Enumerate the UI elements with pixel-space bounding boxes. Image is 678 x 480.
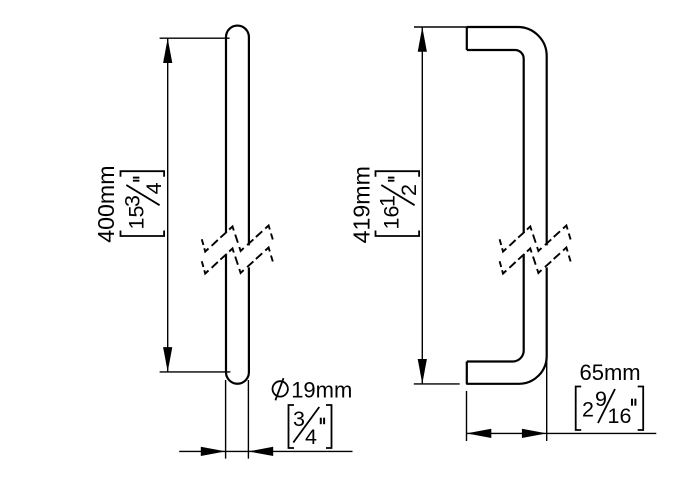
- fraction slash: [381, 185, 414, 205]
- inch mark tick 1: [320, 418, 322, 425]
- handle H2 side view: top leg inner edge and inner bend (above break): [467, 50, 524, 233]
- break mark H1: lower zigzag dashed line: [202, 248, 273, 274]
- break mark H1: upper zigzag dashed line: [202, 226, 273, 252]
- diameter symbol circle: [273, 381, 288, 396]
- label [15 3/4 inch] (rotated bracket group): [120, 171, 166, 236]
- dimension 419mm: vertical dimension line: [421, 27, 423, 384]
- dimension 419mm: top extension line: [414, 26, 467, 28]
- fraction slash: [126, 185, 159, 205]
- svg-text:1: 1: [375, 195, 399, 207]
- inch mark tick 2: [133, 177, 140, 179]
- handle H2 side view: grip inner edge and inner bend into bottom leg (below break): [467, 255, 524, 362]
- left square bracket: [376, 231, 420, 237]
- svg-text:65mm: 65mm: [580, 360, 641, 385]
- svg-text:4: 4: [142, 182, 166, 194]
- dimension 419mm: arrowhead up: [418, 27, 427, 52]
- break mark H2: lower zigzag dashed line: [500, 248, 571, 274]
- right square bracket: [638, 387, 644, 431]
- dimension d19mm: arrowhead pointing right: [201, 447, 226, 456]
- dimension 419mm: arrowhead down: [418, 359, 427, 384]
- svg-text:2: 2: [582, 398, 594, 422]
- left square bracket: [121, 231, 165, 237]
- dimension 400mm: bottom extension line: [160, 371, 231, 373]
- svg-text:4: 4: [305, 425, 317, 449]
- handle H2 side view: grip outer edge and outer bend into bottom leg (below break): [466, 267, 547, 383]
- svg-text:16: 16: [379, 206, 403, 230]
- inch mark tick 1: [388, 180, 395, 182]
- fraction slash: [598, 389, 615, 423]
- svg-text:15: 15: [124, 206, 148, 230]
- dimension d19mm: horizontal dimension line: [179, 450, 352, 452]
- label [16 1/2 inch] (rotated bracket group): [375, 171, 421, 236]
- dimension 400mm: top extension line: [160, 37, 230, 39]
- dimension 400mm: arrowhead down: [163, 347, 172, 372]
- svg-text:400mm: 400mm: [93, 165, 119, 242]
- inch mark tick 2: [634, 399, 636, 406]
- label [2 9/16 inch] (bracket group): [576, 387, 644, 431]
- handle H2 side view: top leg outer edge and outer bend into grip (above break): [467, 27, 547, 245]
- dimension d19mm: left extension line: [225, 380, 227, 459]
- svg-text:19mm: 19mm: [291, 378, 352, 403]
- inch mark tick 1: [631, 399, 633, 406]
- fraction slash: [293, 407, 319, 443]
- handle H2 side view: bottom end cap: [466, 362, 468, 384]
- inch mark tick 2: [323, 418, 325, 425]
- dimension d19mm: arrowhead pointing left: [248, 447, 273, 456]
- right square bracket: [326, 405, 332, 448]
- break mark H2: upper zigzag dashed line: [500, 226, 571, 252]
- dimension 400mm: arrowhead up: [163, 38, 172, 63]
- left square bracket: [576, 387, 582, 431]
- inch mark tick 2: [388, 177, 395, 179]
- svg-text:3: 3: [120, 195, 144, 207]
- dimension 400mm: vertical dimension line: [167, 38, 169, 372]
- dimension 419mm: bottom extension line: [414, 383, 460, 385]
- left square bracket: [289, 405, 295, 448]
- dimension 65mm: horizontal dimension line: [467, 432, 657, 434]
- inch mark tick 1: [133, 180, 140, 182]
- svg-text:16: 16: [608, 404, 632, 428]
- dimension 65mm: left extension line: [466, 391, 468, 441]
- dimension 65mm: arrowhead pointing right: [522, 429, 547, 438]
- diameter symbol slash: [275, 378, 283, 400]
- handle H2 side view: top end cap: [466, 27, 468, 50]
- dimension 65mm: right extension line: [546, 356, 548, 441]
- handle H1 front view: upper body piece (capsule, above break): [226, 26, 249, 246]
- label [3/4 inch] (bracket group): [289, 405, 332, 449]
- right square bracket: [376, 171, 420, 177]
- dimension d19mm: right extension line: [247, 380, 249, 459]
- svg-text:3: 3: [293, 407, 305, 431]
- right square bracket: [121, 171, 165, 177]
- svg-text:2: 2: [397, 184, 421, 196]
- svg-text:419mm: 419mm: [349, 166, 375, 243]
- dimension 65mm: arrowhead pointing left: [467, 429, 492, 438]
- handle H1 front view: lower body piece (capsule, below break): [226, 255, 249, 384]
